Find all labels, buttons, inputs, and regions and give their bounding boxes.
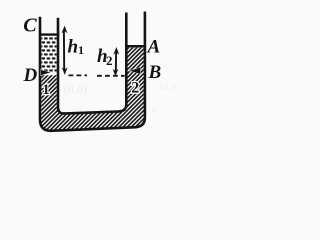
svg-text:C: C [23,15,37,37]
svg-text:.: . [168,8,170,18]
svg-text:1: 1 [78,43,84,57]
dashed level line right (through point 2/B) [97,75,125,77]
svg-text:2: 2 [106,53,113,68]
B pointer arrow [130,67,140,74]
h2 arrow (double headed) [115,50,117,73]
water surface line [40,33,60,35]
svg-text:01 x: 01 x [160,82,178,93]
svg-text:B: B [148,62,162,83]
lower liquid (hatched) filling U-bend [41,48,143,130]
svg-text:2: 2 [131,80,139,97]
water column (dashed fill) in left arm [41,36,56,73]
svg-text:1: 1 [42,82,50,98]
svg-text:D: D [23,65,38,86]
svg-text:q: q [152,104,157,115]
right liquid surface line [125,45,146,48]
svg-text:(0.0): (0.0) [64,82,87,96]
svg-text:A: A [147,37,161,58]
h1 arrow (double headed) [63,30,65,71]
inner tube wall [58,13,126,114]
D pointer arrow [41,70,51,75]
dashed level line left (through point 1/D) [69,74,88,76]
svg-text:h: h [68,36,79,57]
outer tube wall [40,12,145,131]
